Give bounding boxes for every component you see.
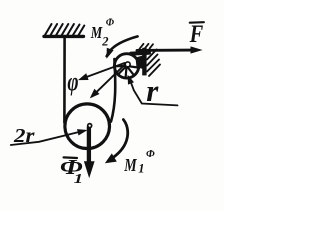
- ceiling hatching: [45, 24, 84, 35]
- svg-text:M: M: [90, 24, 103, 42]
- arrowhead of angle line B: [90, 89, 100, 99]
- wall hatching: [147, 50, 160, 77]
- large pulley rim: [65, 104, 110, 149]
- axle bracket to wall: [136, 55, 147, 70]
- label Ф1: [60, 157, 83, 187]
- svg-text:1: 1: [138, 162, 144, 176]
- small pulley hub hole: [126, 63, 129, 66]
- label M2: [90, 18, 115, 49]
- svg-text:φ: φ: [67, 66, 78, 96]
- force arrow F (horizontal): [137, 49, 192, 52]
- svg-text:r: r: [146, 73, 159, 108]
- hatch ticks above F line: [140, 44, 154, 49]
- small pulley spokes: [115, 66, 138, 77]
- svg-text:2r: 2r: [13, 125, 35, 147]
- moment arc M2 (around small pulley): [107, 36, 138, 56]
- arrowhead of F1 force: [84, 161, 95, 178]
- svg-text:2: 2: [101, 34, 108, 48]
- leader line for 2r: [11, 132, 81, 145]
- overbar of F label: [190, 21, 204, 24]
- arrowhead of F: [191, 46, 203, 53]
- right rope (large pulley to small pulley): [111, 59, 115, 122]
- angle line B (from small pulley hub, lower): [92, 64, 126, 97]
- moment arc M1 (right of large pulley): [109, 120, 128, 161]
- angle line A (from small pulley hub, upper): [81, 63, 125, 79]
- ceiling bar: [44, 35, 84, 38]
- svg-text:F: F: [189, 19, 204, 48]
- svg-text:M: M: [123, 157, 137, 176]
- arrowhead of 2r leader: [77, 129, 88, 135]
- arrowhead of M1 arc: [105, 153, 117, 163]
- svg-text:Φ: Φ: [106, 18, 115, 29]
- arrowhead of r leader: [128, 75, 134, 85]
- arrowhead of angle line A: [78, 73, 89, 80]
- arrowhead of M2 arc: [107, 48, 114, 59]
- leader line for r: [130, 81, 177, 106]
- svg-text:Φ: Φ: [146, 148, 155, 160]
- rope over small pulley top: [131, 51, 149, 56]
- wall bar: [142, 48, 146, 76]
- label M1: [123, 148, 155, 176]
- overbar of Ф1 label: [64, 156, 77, 159]
- hub hole of large pulley: [89, 125, 91, 127]
- small pulley hub: [124, 61, 131, 68]
- small pulley rim: [114, 54, 138, 78]
- left rope (ceiling to large pulley): [63, 38, 66, 123]
- svg-text:1: 1: [74, 170, 83, 186]
- force arrow F1 (inertia force, down from hub): [87, 127, 91, 163]
- hub of large pulley: [87, 123, 93, 129]
